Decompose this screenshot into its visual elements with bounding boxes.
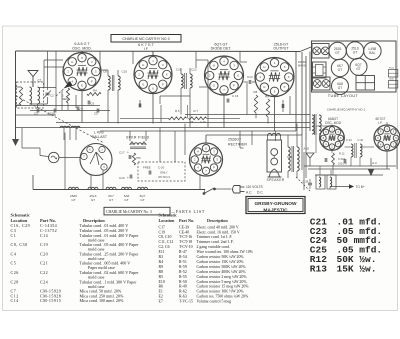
resistor R5 bbox=[169, 109, 187, 120]
svg-text:L 49 B: L 49 B bbox=[94, 131, 104, 135]
svg-text:Carbon resistor 15 meg ¼W 20%: Carbon resistor 15 meg ¼W 20% bbox=[197, 285, 250, 289]
tube layout box bbox=[312, 41, 397, 92]
tube V5 25Z6GT rectifier bbox=[190, 143, 223, 176]
capacitor C15A bbox=[48, 109, 56, 116]
svg-text:P: P bbox=[213, 166, 215, 170]
svg-text:C1: C1 bbox=[11, 233, 17, 238]
svg-text:R-63: R-63 bbox=[179, 295, 187, 299]
tube V3 6Q7GT diode det bbox=[205, 56, 244, 95]
IF transformer T1 bbox=[103, 69, 127, 95]
gang arrow at tube V1 bbox=[64, 81, 73, 89]
label 110 VOLTS AC DC bbox=[246, 185, 264, 195]
small loop antenna bbox=[304, 147, 315, 191]
svg-text:I F: I F bbox=[144, 47, 148, 51]
svg-text:Schematic: Schematic bbox=[159, 212, 178, 217]
capacitor C5 bbox=[94, 109, 99, 116]
svg-text:MAJESTIC: MAJESTIC bbox=[263, 207, 288, 213]
capacitor C16 bbox=[227, 94, 238, 102]
svg-text:R-55: R-55 bbox=[179, 275, 187, 279]
svg-text:Description: Description bbox=[207, 218, 228, 223]
IF transformer T2 bbox=[176, 68, 197, 94]
resistor R9 bbox=[265, 95, 270, 117]
wire bbox=[152, 51, 154, 55]
tube V4 25L6GT output bbox=[255, 58, 294, 97]
antenna coil assembly dashed box bbox=[17, 82, 44, 108]
svg-text:T-CT-16: T-CT-16 bbox=[179, 235, 192, 239]
layout transformer box bbox=[313, 62, 327, 78]
resistor R8 bbox=[254, 90, 258, 113]
svg-text:E10: E10 bbox=[159, 280, 165, 284]
svg-text:TUBE LAYOUT: TUBE LAYOUT bbox=[328, 94, 359, 98]
svg-text:E11: E11 bbox=[159, 250, 165, 254]
filament tag boxes right bbox=[389, 68, 398, 88]
svg-text:H: H bbox=[197, 150, 199, 154]
tube small 6K7GT bbox=[374, 125, 400, 151]
svg-text:Trimmer cond. 1st I. F.: Trimmer cond. 1st I. F. bbox=[197, 235, 233, 239]
svg-text:R-59: R-59 bbox=[179, 265, 187, 269]
svg-text:Carbon resistor 5 meg ¼W 20%: Carbon resistor 5 meg ¼W 20% bbox=[197, 280, 248, 284]
svg-text:Location: Location bbox=[11, 218, 28, 223]
svg-text:Carbon resistor 15K ¼W 20%: Carbon resistor 15K ¼W 20% bbox=[197, 260, 245, 264]
bus wires middle bbox=[185, 114, 310, 116]
svg-text:GT: GT bbox=[91, 198, 95, 202]
svg-text:BALLAST: BALLAST bbox=[92, 135, 107, 139]
svg-text:H: H bbox=[263, 65, 265, 69]
rectifier labels 25Z6GT RECTIFIER bbox=[228, 138, 247, 147]
svg-text:Location: Location bbox=[159, 218, 175, 223]
svg-text:R8: R8 bbox=[159, 270, 164, 274]
pilot lamp bbox=[49, 152, 59, 162]
wires grid left bbox=[16, 105, 101, 107]
resistor 750 ohm bbox=[132, 153, 141, 165]
capacitor C7 bbox=[77, 107, 83, 112]
svg-text:Trimmer cond. 2nd I. F.: Trimmer cond. 2nd I. F. bbox=[197, 240, 234, 244]
svg-text:OSC- MOD: OSC- MOD bbox=[325, 121, 342, 125]
svg-text:H: H bbox=[213, 63, 215, 67]
parts table 1 header bbox=[11, 212, 106, 222]
svg-text:C17: C17 bbox=[159, 225, 166, 229]
resistor R7 bbox=[189, 109, 207, 120]
heater bus wire bbox=[33, 189, 205, 191]
wires ballast to heater bus bbox=[90, 175, 92, 190]
svg-text:R5: R5 bbox=[159, 275, 164, 279]
svg-text:GT: GT bbox=[109, 198, 113, 202]
svg-text:Schematic: Schematic bbox=[11, 212, 30, 217]
svg-text:C17: C17 bbox=[119, 151, 125, 155]
C28 cap bbox=[303, 179, 313, 189]
svg-text:C26: C26 bbox=[11, 270, 19, 275]
capacitor C3 bbox=[34, 109, 39, 116]
spkr coils top bbox=[60, 126, 80, 140]
svg-text:P: P bbox=[91, 79, 93, 83]
svg-text:R13: R13 bbox=[310, 264, 327, 275]
tube V2 6K7GT IF bbox=[134, 56, 172, 94]
svg-text:C18: C18 bbox=[287, 155, 293, 159]
svg-text:Carbon resistor 50K ¼W 20%: Carbon resistor 50K ¼W 20% bbox=[197, 255, 245, 259]
wire bbox=[32, 82, 34, 87]
heater 6A8GT bbox=[122, 187, 132, 202]
svg-text:110 VOLTS: 110 VOLTS bbox=[246, 185, 264, 189]
svg-text:Carbon resistor 500K ¼W 20%: Carbon resistor 500K ¼W 20% bbox=[197, 265, 247, 269]
svg-text:Electr. cond. 16 mfd. 150 V: Electr. cond. 16 mfd. 150 V bbox=[197, 230, 240, 234]
resistor R2 bbox=[62, 88, 70, 103]
coil L2 bbox=[38, 87, 40, 104]
electrolytic C17 bbox=[119, 151, 131, 160]
ground arrow small bbox=[368, 169, 375, 176]
svg-text:C22: C22 bbox=[40, 270, 48, 275]
svg-text:Carbon resistor 400K ¼W 20%: Carbon resistor 400K ¼W 20% bbox=[197, 270, 247, 274]
svg-text:TO B+: TO B+ bbox=[356, 185, 365, 189]
svg-text:C6: C6 bbox=[91, 102, 95, 106]
vertical drops to buses bbox=[81, 91, 83, 123]
svg-text:G: G bbox=[263, 85, 265, 89]
svg-text:T-VC-15: T-VC-15 bbox=[179, 300, 193, 304]
wire bbox=[81, 51, 83, 52]
svg-text:K: K bbox=[166, 73, 168, 77]
svg-text:C10: C10 bbox=[122, 69, 128, 73]
svg-text:R-62: R-62 bbox=[179, 290, 187, 294]
svg-text:FROM: FROM bbox=[298, 60, 306, 64]
svg-text:CM-15915: CM-15915 bbox=[40, 298, 61, 303]
svg-text:R9: R9 bbox=[159, 265, 164, 269]
svg-text:Part No.: Part No. bbox=[40, 218, 56, 223]
wires from tubes tops bbox=[331, 125, 333, 126]
capacitor C13 bbox=[244, 75, 256, 84]
svg-text:R-54: R-54 bbox=[179, 255, 187, 259]
svg-text:K: K bbox=[288, 75, 290, 79]
svg-text:C.28: C.28 bbox=[303, 179, 309, 183]
svg-text:P: P bbox=[233, 84, 235, 88]
parts table 1 rows bbox=[11, 223, 140, 303]
tube small 6A8GT bbox=[320, 126, 345, 151]
extra wiring main schematic bbox=[48, 51, 307, 178]
svg-text:Older: Older bbox=[389, 78, 394, 81]
svg-text:C20: C20 bbox=[40, 251, 48, 256]
svg-text:CHARLIE MCCARTHY NO.1: CHARLIE MCCARTHY NO.1 bbox=[327, 107, 366, 111]
svg-text:Filam: Filam bbox=[389, 68, 394, 70]
svg-text:R-47: R-47 bbox=[179, 250, 187, 254]
svg-text:G: G bbox=[142, 82, 144, 86]
layout tube 25Z6GT bbox=[329, 42, 346, 59]
top bus wire bbox=[16, 50, 301, 53]
svg-text:RECTIFIER: RECTIFIER bbox=[228, 142, 247, 146]
svg-text:K: K bbox=[237, 74, 239, 78]
wire to tube layout bbox=[300, 47, 311, 52]
heater 25L6GT bbox=[88, 187, 98, 202]
ground arrow left bbox=[12, 139, 19, 146]
svg-text:GT: GT bbox=[124, 198, 128, 202]
wires power section bbox=[275, 131, 277, 141]
trimmer C2 bbox=[44, 91, 54, 98]
svg-text:H: H bbox=[142, 63, 144, 67]
svg-text:GT: GT bbox=[71, 198, 75, 202]
layout tube 6A8GT bbox=[332, 78, 349, 95]
heater 6Q7GT bbox=[138, 187, 148, 202]
svg-text:C19: C19 bbox=[119, 176, 125, 180]
svg-text:E2: E2 bbox=[159, 295, 163, 299]
svg-text:C.10: C.10 bbox=[358, 138, 364, 142]
svg-text:C2: C2 bbox=[50, 94, 54, 98]
svg-text:Electr. cond 40 mfd. 200 V: Electr. cond 40 mfd. 200 V bbox=[197, 225, 239, 229]
svg-text:R.12: R.12 bbox=[339, 151, 345, 155]
svg-text:C 16: C 16 bbox=[232, 94, 239, 98]
tube V1 6A8GT labels bbox=[72, 42, 92, 50]
svg-text:FREE: FREE bbox=[143, 166, 151, 170]
dashed AVC line bbox=[16, 96, 104, 143]
parts table 2 header bbox=[159, 212, 229, 222]
svg-text:GT: GT bbox=[338, 68, 343, 72]
parts list title box bbox=[104, 207, 205, 215]
component value list bbox=[310, 216, 382, 274]
svg-text:R4: R4 bbox=[159, 260, 164, 264]
svg-text:G: G bbox=[213, 84, 215, 88]
svg-text:2 gang variable cond.: 2 gang variable cond. bbox=[197, 245, 231, 249]
svg-text:C13: C13 bbox=[247, 75, 253, 79]
tube V3 6Q7GT labels bbox=[211, 42, 232, 50]
svg-text:T-CV-10: T-CV-10 bbox=[179, 245, 193, 249]
svg-text:R-51: R-51 bbox=[179, 260, 187, 264]
svg-text:GT: GT bbox=[335, 51, 340, 55]
svg-text:R-52: R-52 bbox=[179, 270, 187, 274]
svg-text:+: + bbox=[127, 151, 129, 155]
svg-text:A.20: A.20 bbox=[304, 147, 310, 151]
switch SW bbox=[203, 188, 228, 195]
svg-text:D.C.: D.C. bbox=[257, 191, 264, 195]
wires at R5 R7 bbox=[120, 117, 169, 119]
svg-text:R6: R6 bbox=[159, 285, 164, 289]
wires pilot to ballast bbox=[40, 156, 49, 157]
svg-text:OUTPUT: OUTPUT bbox=[273, 47, 289, 51]
svg-text:C.24: C.24 bbox=[346, 138, 352, 142]
svg-text:R.5: R.5 bbox=[175, 109, 180, 113]
svg-text:R3: R3 bbox=[159, 255, 164, 259]
right vertical bus bbox=[301, 52, 303, 135]
electrolytic C19 bbox=[119, 175, 132, 181]
layout tube L49B BAL bbox=[364, 42, 381, 59]
svg-text:E1: E1 bbox=[159, 290, 163, 294]
AC plug bbox=[228, 186, 245, 194]
svg-text:R.7: R.7 bbox=[194, 109, 199, 113]
ballast tube L49B bbox=[80, 144, 112, 176]
small bus wires bbox=[304, 165, 396, 167]
resistor R1 bbox=[19, 87, 22, 105]
coil L1 bbox=[30, 87, 32, 104]
svg-text:P: P bbox=[162, 82, 164, 86]
small components row bbox=[325, 151, 347, 165]
svg-text:MAINS: MAINS bbox=[298, 64, 306, 68]
left vertical wire bbox=[15, 51, 17, 139]
osc coil cans bbox=[316, 166, 336, 189]
layout socket pair bottom-left bbox=[313, 77, 331, 90]
dashed box ONLY ON NO.3 bbox=[138, 162, 185, 181]
brand box GRISBY-GRUNOW MAJESTIC bbox=[246, 197, 305, 214]
svg-text:C-20: C-20 bbox=[158, 166, 165, 170]
svg-text:GRISBY-GRUNOW: GRISBY-GRUNOW bbox=[254, 201, 297, 207]
svg-text:Volume control 5 meg: Volume control 5 meg bbox=[197, 300, 232, 304]
resistor R4 bbox=[87, 89, 101, 96]
svg-text:Part No.: Part No. bbox=[179, 218, 194, 223]
svg-text:Carbon res. 7500 ohms ¼W 20%: Carbon res. 7500 ohms ¼W 20% bbox=[197, 295, 249, 299]
svg-text:BAL: BAL bbox=[369, 51, 375, 55]
label 6K7GT IF small bbox=[375, 117, 385, 125]
label L49B BALLAST bbox=[92, 131, 107, 140]
svg-text:R9: R9 bbox=[265, 95, 269, 99]
svg-text:GT: GT bbox=[353, 51, 358, 55]
svg-text:Description: Description bbox=[83, 218, 105, 223]
tube V4 25L6GT labels bbox=[273, 42, 289, 50]
svg-text:C14: C14 bbox=[40, 233, 48, 238]
svg-text:I.F.: I.F. bbox=[378, 121, 382, 125]
svg-text:CE-40: CE-40 bbox=[179, 230, 189, 234]
svg-text:E7: E7 bbox=[159, 300, 163, 304]
svg-text:15K ½w.: 15K ½w. bbox=[337, 264, 377, 275]
antenna ANT bbox=[28, 71, 42, 88]
SPEAKER assembly bbox=[267, 133, 282, 177]
svg-text:750: 750 bbox=[136, 156, 141, 160]
svg-text:Wire wound res. 100 ohms 1W 10: Wire wound res. 100 ohms 1W 10% bbox=[197, 250, 254, 254]
svg-text:A./c: A./c bbox=[371, 161, 378, 165]
SPKR FIELD label bbox=[126, 135, 150, 139]
title box CHARLIE MC CARTHY NO 3 bbox=[111, 35, 181, 43]
svg-text:C21: C21 bbox=[40, 261, 48, 266]
svg-text:+: + bbox=[127, 176, 129, 180]
svg-text:C14: C14 bbox=[11, 298, 19, 303]
svg-text:Mica cond. 100 mmf. 20%: Mica cond. 100 mmf. 20% bbox=[80, 298, 124, 303]
TO B+ arrow bbox=[330, 184, 365, 189]
dashed link to schematic 2 bbox=[296, 177, 311, 192]
svg-text:T-CT-18: T-CT-18 bbox=[179, 240, 192, 244]
svg-text:ONLY: ONLY bbox=[160, 171, 168, 175]
svg-text:A.C.: A.C. bbox=[246, 191, 252, 195]
svg-text:DIODE DET.: DIODE DET. bbox=[211, 47, 232, 51]
svg-text:CHARLIE McCARTHY No. 3: CHARLIE McCARTHY No. 3 bbox=[106, 210, 152, 214]
heater 6K7GT bbox=[106, 187, 116, 202]
svg-text:CE-39: CE-39 bbox=[179, 225, 189, 229]
svg-text:Carbon resistor 2 meg ¼W 20%: Carbon resistor 2 meg ¼W 20% bbox=[197, 275, 248, 279]
svg-text:C19: C19 bbox=[40, 242, 48, 247]
svg-text:C19: C19 bbox=[159, 230, 166, 234]
svg-text:Carbon resistor 10K ½W 20%: Carbon resistor 10K ½W 20% bbox=[197, 290, 245, 294]
svg-text:C28: C28 bbox=[11, 279, 19, 284]
layout window grid bbox=[356, 76, 375, 91]
speaker field coil bbox=[130, 141, 146, 148]
svg-text:C4: C4 bbox=[11, 251, 17, 256]
svg-text:P: P bbox=[284, 85, 286, 89]
choke coil L3 bbox=[312, 114, 321, 135]
layout tube 6Q7GT bbox=[350, 58, 367, 75]
svg-text:C7: C7 bbox=[80, 108, 84, 112]
svg-text:E: E bbox=[81, 83, 83, 87]
svg-text:R-49: R-49 bbox=[179, 285, 187, 289]
svg-text:C24: C24 bbox=[40, 279, 48, 284]
svg-text:ON NO.3: ON NO.3 bbox=[158, 175, 170, 179]
svg-text:C5: C5 bbox=[94, 112, 98, 116]
svg-text:C-19: C-19 bbox=[200, 120, 206, 124]
parts table 2 rows bbox=[159, 225, 254, 303]
svg-text:R6: R6 bbox=[190, 120, 194, 124]
svg-text:R8: R8 bbox=[254, 90, 258, 94]
layout tube 6K7GT bbox=[331, 59, 348, 76]
heater 25Z6GT bbox=[69, 187, 79, 202]
wires input section bbox=[16, 86, 22, 88]
svg-text:C12: C12 bbox=[191, 68, 197, 72]
svg-text:GT: GT bbox=[140, 198, 144, 202]
output transformer T3 bbox=[287, 146, 299, 172]
tube V1 6A8GT osc-mod bbox=[63, 53, 101, 91]
svg-text:SPEAKER: SPEAKER bbox=[266, 178, 284, 182]
FROM MAINS label bbox=[298, 60, 306, 68]
svg-text:R-50: R-50 bbox=[179, 280, 187, 284]
svg-text:H: H bbox=[71, 60, 73, 64]
wires rectifier bbox=[205, 135, 207, 143]
label 6K7GT IF bbox=[138, 43, 154, 51]
svg-text:C5: C5 bbox=[11, 261, 17, 266]
small IF transformer bbox=[345, 138, 375, 166]
label 6A8GT OSC-MOD small bbox=[325, 117, 342, 125]
svg-text:OSC. MOD.: OSC. MOD. bbox=[72, 46, 92, 50]
svg-text:GT: GT bbox=[356, 67, 361, 71]
capacitor C6 bbox=[88, 98, 94, 107]
svg-text:CHARLIE MC CARTHY NO 3: CHARLIE MC CARTHY NO 3 bbox=[122, 37, 169, 41]
svg-text:GT: GT bbox=[338, 86, 343, 90]
layout socket pair top-left bbox=[312, 44, 329, 59]
layout tube 25L6GT bbox=[346, 42, 363, 59]
